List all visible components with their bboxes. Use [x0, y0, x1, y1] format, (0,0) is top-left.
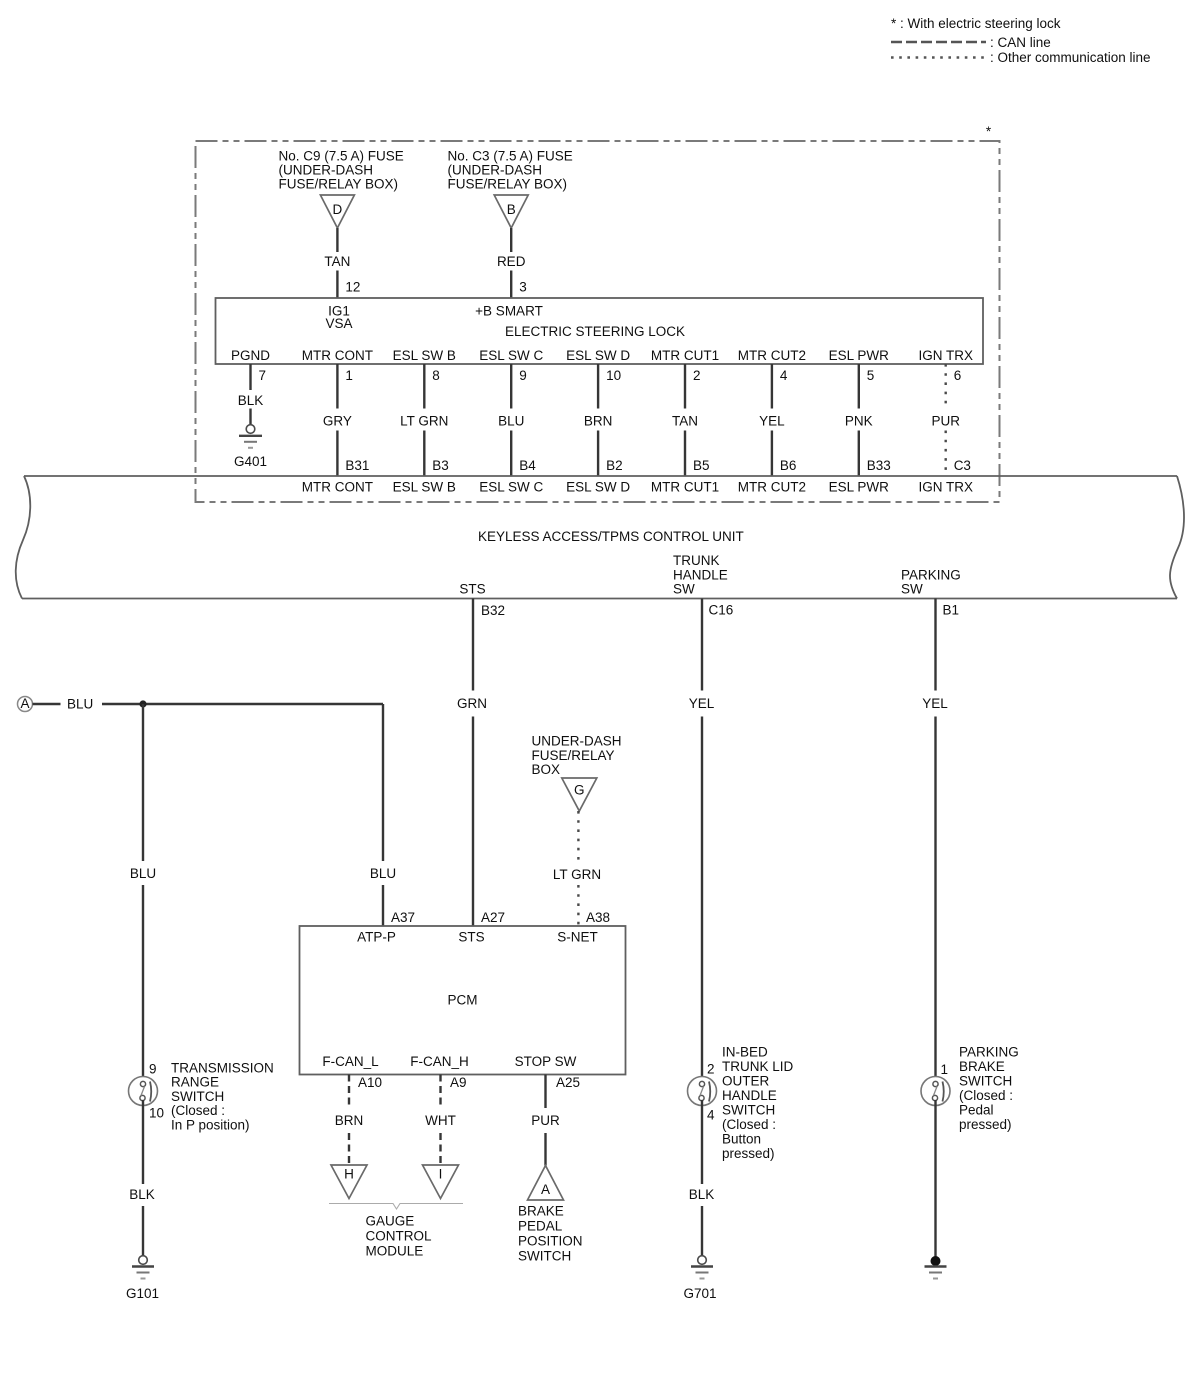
svg-text:HANDLE: HANDLE — [722, 1088, 777, 1103]
svg-text:BLU: BLU — [130, 866, 156, 881]
svg-text:FUSE/RELAY BOX): FUSE/RELAY BOX) — [279, 177, 399, 192]
svg-text:A37: A37 — [391, 910, 415, 925]
svg-text:A: A — [20, 696, 29, 711]
wire F-CAN_H (WHT) dashed CAN line — [439, 1075, 441, 1109]
svg-text:10: 10 — [606, 368, 621, 383]
svg-text:B5: B5 — [693, 458, 710, 473]
svg-text:10: 10 — [149, 1106, 164, 1121]
ground G101 — [139, 1256, 148, 1265]
svg-text:FUSE/RELAY: FUSE/RELAY — [532, 748, 615, 763]
connector triangle H — [331, 1165, 367, 1199]
svg-text:C3: C3 — [954, 458, 971, 473]
wire ESL SW D (BRN) — [597, 364, 599, 409]
svg-text:+B SMART: +B SMART — [475, 304, 543, 319]
legend other communication line sample — [891, 56, 986, 59]
dash-dot enclosure box (with electric steering lock) — [196, 141, 1000, 502]
svg-text:STS: STS — [458, 930, 484, 945]
svg-text:BLK: BLK — [129, 1187, 155, 1202]
svg-text:(Closed :: (Closed : — [722, 1117, 776, 1132]
connector triangle I — [423, 1165, 459, 1199]
wire S-NET (LT GRN) dotted communication line — [577, 811, 579, 861]
svg-text:POSITION: POSITION — [518, 1234, 583, 1249]
svg-text:: Other communication line: : Other communication line — [990, 50, 1151, 65]
svg-text:BRAKE: BRAKE — [959, 1059, 1005, 1074]
svg-text:GRN: GRN — [457, 696, 487, 711]
wire fuse B to pin 3 (RED) — [510, 228, 512, 252]
svg-text:B: B — [507, 202, 516, 217]
svg-text:IGN TRX: IGN TRX — [918, 348, 973, 363]
svg-text:pressed): pressed) — [722, 1146, 775, 1161]
svg-text:ESL SW D: ESL SW D — [566, 480, 630, 495]
svg-text:HANDLE: HANDLE — [673, 567, 728, 582]
svg-text:PUR: PUR — [931, 414, 960, 429]
svg-text:BLU: BLU — [498, 414, 524, 429]
svg-text:BLU: BLU — [370, 866, 396, 881]
svg-text:ESL SW D: ESL SW D — [566, 348, 630, 363]
fuse C3 connector triangle B — [494, 195, 528, 228]
svg-text:TRANSMISSION: TRANSMISSION — [171, 1061, 274, 1076]
chassis ground with junction dot — [931, 1256, 941, 1266]
svg-text:BRN: BRN — [335, 1113, 364, 1128]
svg-text:TRUNK: TRUNK — [673, 553, 720, 568]
svg-text:ESL SW C: ESL SW C — [479, 348, 543, 363]
svg-text:MTR CUT2: MTR CUT2 — [738, 480, 806, 495]
svg-text:B2: B2 — [606, 458, 623, 473]
svg-text:RED: RED — [497, 254, 526, 269]
svg-text:BLK: BLK — [689, 1187, 715, 1202]
svg-text:STOP SW: STOP SW — [515, 1054, 577, 1069]
svg-text:7: 7 — [259, 368, 267, 383]
connector triangle A (brake pedal position switch) — [528, 1166, 564, 1201]
svg-text:YEL: YEL — [689, 696, 715, 711]
wire YEL from TRUNK HANDLE SW C16 — [701, 599, 703, 691]
svg-text:A10: A10 — [358, 1075, 382, 1090]
svg-text:B4: B4 — [519, 458, 536, 473]
KEYLESS ACCESS/TPMS CONTROL UNIT band — [24, 475, 1177, 477]
svg-text:8: 8 — [432, 368, 440, 383]
svg-text:A27: A27 — [481, 910, 505, 925]
svg-text:F-CAN_L: F-CAN_L — [322, 1054, 379, 1069]
svg-text:2: 2 — [693, 368, 701, 383]
svg-text:(UNDER-DASH: (UNDER-DASH — [448, 163, 543, 178]
ground G401 — [246, 425, 255, 434]
wire MTR CUT2 (YEL) — [771, 364, 773, 409]
svg-text:ESL SW C: ESL SW C — [479, 480, 543, 495]
svg-text:ATP-P: ATP-P — [357, 930, 396, 945]
svg-text:PARKING: PARKING — [901, 567, 961, 582]
svg-text:ELECTRIC STEERING LOCK: ELECTRIC STEERING LOCK — [505, 324, 685, 339]
wire IGN TRX (PUR) dotted communication line — [945, 364, 947, 409]
svg-text:PCM: PCM — [448, 993, 478, 1008]
wire to chassis ground — [934, 1100, 936, 1257]
svg-text:4: 4 — [780, 368, 788, 383]
svg-text:SW: SW — [901, 582, 923, 597]
under-dash fuse/relay box connector triangle G — [562, 778, 597, 811]
svg-text:MTR CONT: MTR CONT — [302, 480, 373, 495]
svg-text:IN-BED: IN-BED — [722, 1045, 768, 1060]
svg-text:FUSE/RELAY BOX): FUSE/RELAY BOX) — [448, 177, 568, 192]
wire ESL SW B (LT GRN) — [423, 364, 425, 409]
svg-text:ESL SW B: ESL SW B — [393, 348, 456, 363]
svg-text:F-CAN_H: F-CAN_H — [410, 1054, 469, 1069]
wire F-CAN_L (BRN) dashed CAN line — [348, 1075, 350, 1109]
wire PGND (BLK) to ground — [249, 364, 251, 390]
svg-text:TAN: TAN — [324, 254, 350, 269]
gauge control module bracket — [329, 1204, 463, 1210]
wire BLU down to PCM ATP-P A37 — [382, 704, 384, 861]
svg-text:CONTROL: CONTROL — [366, 1229, 432, 1244]
svg-text:(Closed :: (Closed : — [959, 1088, 1013, 1103]
svg-text:*: * — [986, 124, 992, 139]
svg-text:YEL: YEL — [922, 696, 948, 711]
ELECTRIC STEERING LOCK box U1 — [216, 298, 984, 364]
svg-text:Button: Button — [722, 1132, 761, 1147]
svg-text:TRUNK LID: TRUNK LID — [722, 1059, 794, 1074]
svg-text:BRAKE: BRAKE — [518, 1204, 564, 1219]
svg-text:(Closed :: (Closed : — [171, 1103, 225, 1118]
svg-text:UNDER-DASH: UNDER-DASH — [532, 734, 622, 749]
svg-text:B32: B32 — [481, 603, 505, 618]
svg-text:3: 3 — [519, 280, 527, 295]
wire ESL PWR (PNK) — [858, 364, 860, 409]
svg-text:G: G — [574, 783, 585, 798]
svg-text:In P position): In P position) — [171, 1117, 250, 1132]
svg-text:MTR CUT2: MTR CUT2 — [738, 348, 806, 363]
svg-text:KEYLESS ACCESS/TPMS CONTROL UN: KEYLESS ACCESS/TPMS CONTROL UNIT — [478, 529, 744, 544]
svg-text:I: I — [439, 1167, 443, 1182]
svg-text:pressed): pressed) — [959, 1117, 1012, 1132]
svg-text:BRN: BRN — [584, 414, 613, 429]
wire MTR CUT1 (TAN) — [684, 364, 686, 409]
svg-text:SWITCH: SWITCH — [171, 1089, 224, 1104]
svg-text:B6: B6 — [780, 458, 797, 473]
svg-text:2: 2 — [707, 1062, 715, 1077]
svg-text:6: 6 — [954, 368, 962, 383]
svg-text:ESL PWR: ESL PWR — [829, 348, 890, 363]
svg-text:D: D — [333, 202, 343, 217]
wire GRN from STS B32 to PCM A27 — [472, 599, 474, 691]
ground G701 — [698, 1256, 707, 1265]
svg-text:No. C3 (7.5 A) FUSE: No. C3 (7.5 A) FUSE — [448, 149, 573, 164]
svg-text:12: 12 — [345, 280, 360, 295]
svg-text:PEDAL: PEDAL — [518, 1219, 563, 1234]
svg-text:G101: G101 — [126, 1286, 159, 1301]
wire BLK to G101 — [142, 1100, 144, 1184]
svg-text:MTR CUT1: MTR CUT1 — [651, 348, 719, 363]
svg-text:SW: SW — [673, 582, 695, 597]
svg-text:SWITCH: SWITCH — [959, 1074, 1012, 1089]
svg-text:S-NET: S-NET — [557, 930, 598, 945]
svg-text:4: 4 — [707, 1108, 715, 1123]
svg-text:5: 5 — [867, 368, 875, 383]
junction dot — [139, 700, 146, 707]
svg-text:OUTER: OUTER — [722, 1074, 770, 1089]
svg-text:IGN TRX: IGN TRX — [918, 480, 973, 495]
svg-text:B33: B33 — [867, 458, 891, 473]
svg-text:: CAN line: : CAN line — [990, 35, 1051, 50]
wire STOP SW (PUR) — [544, 1075, 546, 1109]
svg-text:B1: B1 — [943, 603, 960, 618]
wire YEL from PARKING SW B1 — [934, 599, 936, 691]
svg-text:LT GRN: LT GRN — [553, 867, 601, 882]
svg-text:MTR CONT: MTR CONT — [302, 348, 373, 363]
svg-text:PARKING: PARKING — [959, 1045, 1019, 1060]
svg-text:C16: C16 — [709, 603, 734, 618]
svg-text:B31: B31 — [345, 458, 369, 473]
wire BLU down left to transmission range switch — [142, 704, 144, 861]
svg-text:A38: A38 — [586, 910, 610, 925]
transmission range switch S1 — [129, 1077, 158, 1106]
svg-text:Pedal: Pedal — [959, 1103, 994, 1118]
svg-text:STS: STS — [459, 582, 485, 597]
svg-text:H: H — [344, 1167, 354, 1182]
node A terminal — [18, 697, 33, 712]
wire ESL SW C (BLU) — [510, 364, 512, 409]
svg-text:BOX: BOX — [532, 762, 561, 777]
svg-text:PNK: PNK — [845, 414, 873, 429]
svg-text:ESL PWR: ESL PWR — [829, 480, 890, 495]
svg-text:G401: G401 — [234, 454, 267, 469]
svg-text:A: A — [541, 1182, 550, 1197]
svg-text:MODULE: MODULE — [366, 1244, 424, 1259]
wire BLK to G701 — [701, 1100, 703, 1184]
svg-text:BLU: BLU — [67, 697, 93, 712]
svg-text:GAUGE: GAUGE — [366, 1214, 415, 1229]
svg-text:* : With electric steering loc: * : With electric steering lock — [891, 16, 1061, 31]
fuse C9 connector triangle D — [320, 195, 354, 228]
wire fuse D to pin 12 (TAN) — [336, 228, 338, 252]
PCM box U2 — [300, 926, 626, 1075]
svg-text:BLK: BLK — [238, 393, 264, 408]
in-bed trunk lid outer handle switch S2 — [688, 1077, 717, 1106]
wire MTR CONT (GRY) — [336, 364, 338, 409]
svg-text:(UNDER-DASH: (UNDER-DASH — [279, 163, 374, 178]
svg-text:A25: A25 — [556, 1075, 580, 1090]
svg-text:9: 9 — [149, 1062, 157, 1077]
svg-text:1: 1 — [941, 1062, 949, 1077]
svg-text:YEL: YEL — [759, 414, 785, 429]
parking brake switch S3 — [921, 1077, 950, 1106]
svg-text:ESL SW B: ESL SW B — [393, 480, 456, 495]
wire node A to junction (BLU) — [33, 703, 61, 705]
svg-text:9: 9 — [519, 368, 527, 383]
svg-text:No. C9 (7.5 A) FUSE: No. C9 (7.5 A) FUSE — [279, 149, 404, 164]
legend CAN line sample — [891, 41, 986, 44]
svg-text:A9: A9 — [450, 1075, 467, 1090]
svg-text:B3: B3 — [432, 458, 449, 473]
svg-text:PUR: PUR — [531, 1113, 560, 1128]
svg-text:G701: G701 — [683, 1286, 716, 1301]
svg-text:1: 1 — [345, 368, 353, 383]
svg-text:MTR CUT1: MTR CUT1 — [651, 480, 719, 495]
svg-text:PGND: PGND — [231, 348, 270, 363]
svg-text:VSA: VSA — [325, 316, 352, 331]
svg-text:GRY: GRY — [323, 414, 352, 429]
svg-text:SWITCH: SWITCH — [518, 1249, 571, 1264]
svg-text:SWITCH: SWITCH — [722, 1103, 775, 1118]
svg-text:TAN: TAN — [672, 414, 698, 429]
svg-text:LT GRN: LT GRN — [400, 414, 448, 429]
svg-text:WHT: WHT — [425, 1113, 456, 1128]
svg-text:RANGE: RANGE — [171, 1075, 219, 1090]
